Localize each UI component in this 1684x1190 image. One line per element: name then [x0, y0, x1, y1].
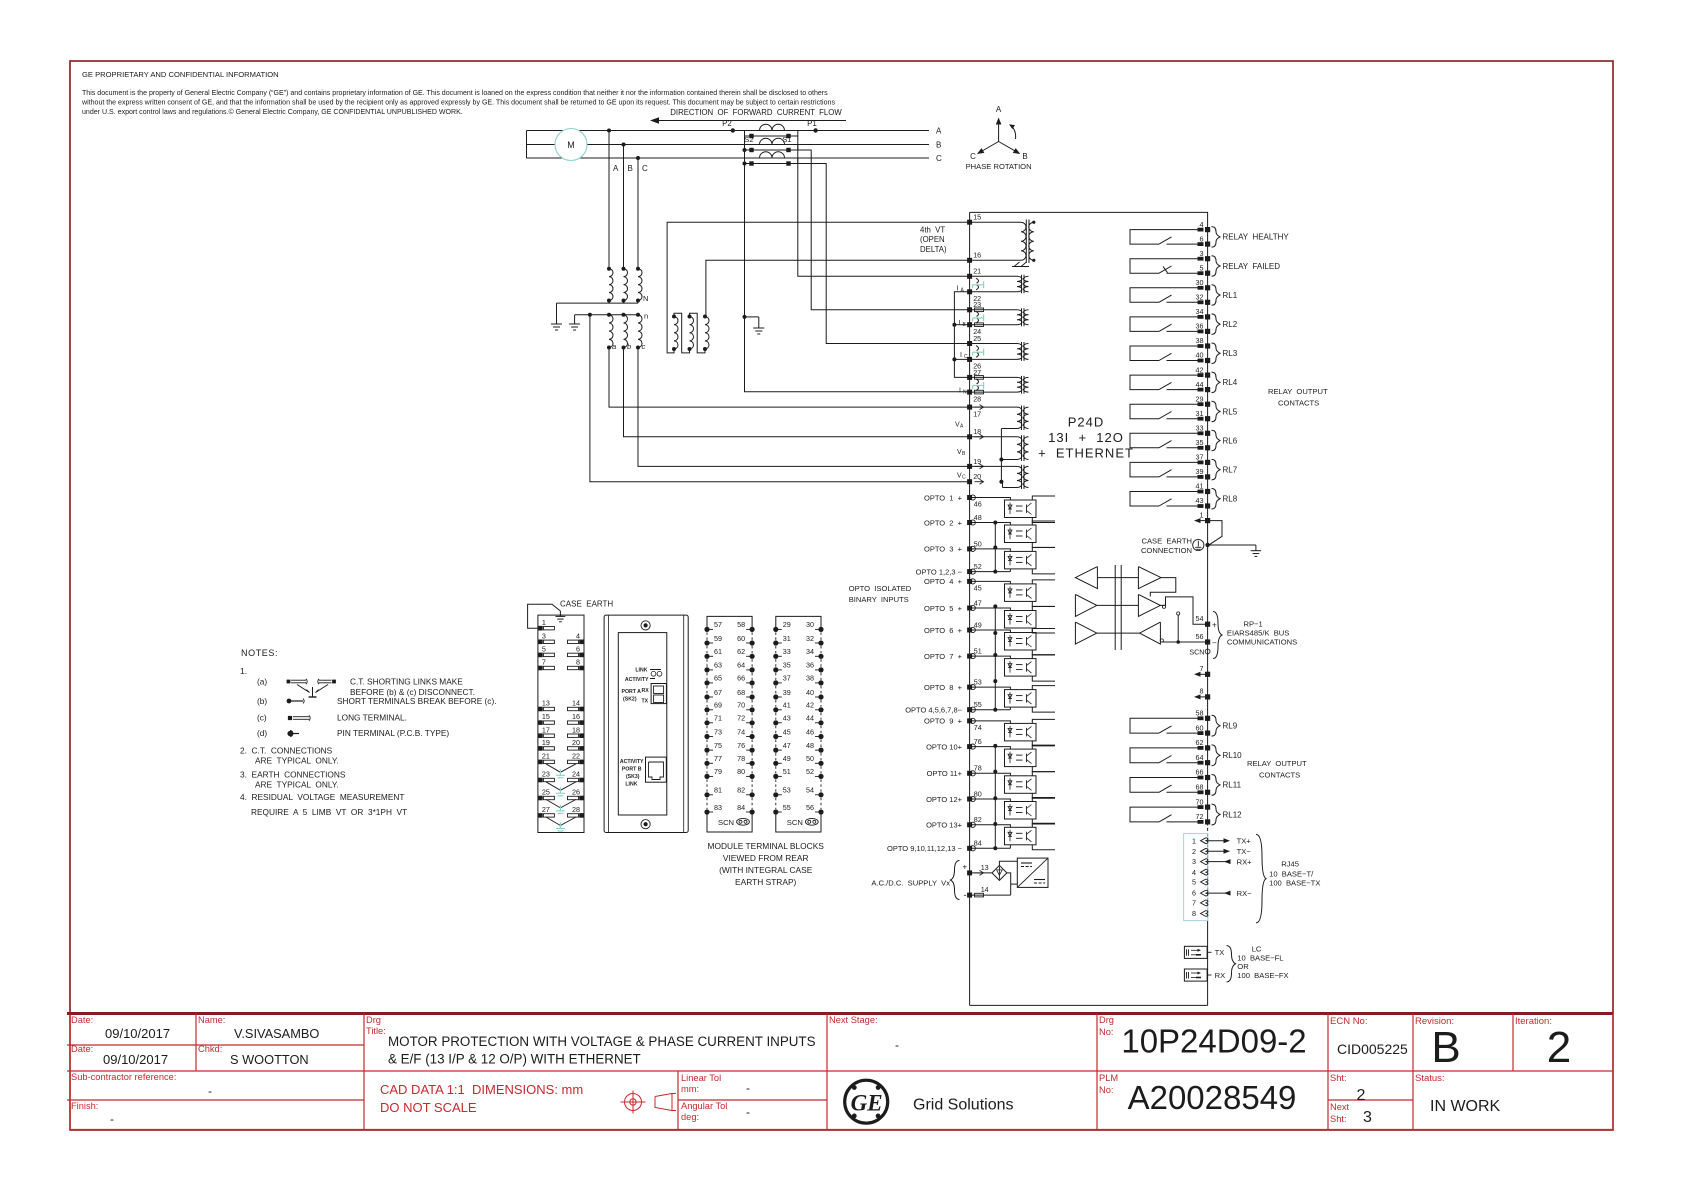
VT primary winding phase C: [636, 267, 642, 303]
svg-text:b: b: [627, 342, 631, 351]
node P1: [807, 119, 818, 133]
svg-text:6: 6: [1192, 889, 1196, 898]
terminal 52 opto common: [916, 562, 982, 576]
svg-text:39: 39: [783, 688, 791, 697]
svg-text:25: 25: [542, 788, 550, 797]
wire opto 3 return: [1009, 569, 1011, 572]
svg-text:36: 36: [1196, 322, 1204, 331]
svg-text:COMMUNICATIONS: COMMUNICATIONS: [1227, 638, 1297, 647]
svg-text:C.T. SHORTING LINKS MAKE: C.T. SHORTING LINKS MAKE: [350, 677, 463, 687]
terminal glyph 28: [975, 390, 984, 394]
RJ45 RX- arrow: [1208, 889, 1253, 898]
svg-text:24: 24: [572, 770, 580, 779]
svg-text:14: 14: [572, 699, 580, 708]
RS485 buffer row1 left: [1075, 567, 1097, 589]
svg-text:Date:: Date:: [71, 1044, 93, 1054]
svg-text:41: 41: [1196, 482, 1204, 491]
svg-text:A: A: [613, 164, 619, 173]
svg-text:71: 71: [714, 714, 722, 723]
relay contact RL9 terminals 58/60: [1130, 709, 1238, 737]
RJ45 TX- arrow: [1208, 847, 1252, 856]
svg-text:OPTO 12+: OPTO 12+: [926, 795, 963, 804]
svg-text:-: -: [895, 1038, 899, 1052]
svg-text:41: 41: [783, 701, 791, 710]
ground case earth: [1251, 545, 1261, 556]
svg-text:C: C: [642, 164, 648, 173]
svg-text:1: 1: [542, 618, 546, 627]
svg-text:7: 7: [1192, 899, 1196, 908]
fiber optic RX port: [1184, 969, 1225, 981]
svg-text:LC: LC: [1252, 944, 1262, 953]
fiber group brace: [1227, 946, 1236, 982]
relay contact RL11 terminals 66/68: [1130, 768, 1242, 796]
title date cell: [71, 1015, 170, 1041]
wire CT A S1 to terminal 21: [798, 136, 970, 276]
svg-text:RL2: RL2: [1223, 320, 1238, 329]
label VB: [957, 449, 966, 457]
svg-text:RL4: RL4: [1223, 378, 1238, 387]
svg-text:Angular Tol: Angular Tol: [681, 1101, 727, 1111]
svg-text:1.: 1.: [240, 666, 247, 676]
svg-text:19: 19: [542, 738, 550, 747]
note 1: [240, 666, 247, 676]
svg-text:6: 6: [576, 645, 580, 654]
svg-text:(a): (a): [257, 677, 267, 687]
svg-text:-: -: [746, 1081, 750, 1095]
optocoupler U4: [1005, 584, 1037, 602]
wire opto 13 output stubs: [1032, 823, 1055, 850]
svg-text:RP−1: RP−1: [1244, 620, 1263, 629]
svg-text:4: 4: [1192, 868, 1196, 877]
note 1a symbol: [287, 679, 336, 697]
wire opto 13 return: [1009, 845, 1011, 849]
svg-text:(OPEN: (OPEN: [920, 235, 945, 244]
svg-text:66: 66: [1196, 768, 1204, 777]
svg-text:55: 55: [783, 803, 791, 812]
wire opto 5 input: [970, 608, 1011, 611]
transformer voltage input VA: [972, 406, 1029, 430]
wire opto 2 input: [970, 523, 1011, 526]
svg-text:8: 8: [1200, 687, 1204, 696]
svg-text:28: 28: [973, 394, 981, 403]
svg-text:No:: No:: [1099, 1085, 1113, 1095]
relay contact RL7 terminals 37/39: [1130, 453, 1238, 480]
case earth block outline: [538, 615, 584, 832]
svg-text:14: 14: [981, 885, 989, 894]
svg-text:B: B: [1431, 1023, 1460, 1072]
svg-text:A.C./D.C. SUPPLY Vx: A.C./D.C. SUPPLY Vx: [871, 878, 950, 887]
svg-text:48: 48: [974, 513, 982, 522]
svg-text:(b): (b): [257, 696, 267, 706]
phase drop labels: [613, 164, 648, 173]
open delta link 1: [674, 313, 690, 353]
wire opto 10 input: [970, 747, 1011, 750]
terminal 76 opto input 10: [926, 737, 982, 751]
wire b to terminal 18: [624, 348, 970, 437]
svg-text:OPTO 3 +: OPTO 3 +: [924, 545, 963, 554]
optocoupler U8: [1005, 690, 1037, 708]
terminal 51 opto input 7: [924, 647, 982, 661]
svg-text:80: 80: [737, 767, 745, 776]
wire VT neutral N: [557, 294, 649, 318]
case earth block terminal 27: [538, 805, 554, 818]
svg-text:OPTO 8 +: OPTO 8 +: [924, 683, 963, 692]
svg-text:09/10/2017: 09/10/2017: [105, 1026, 170, 1041]
ground VT secondary neutral: [569, 318, 580, 330]
svg-text:78: 78: [974, 764, 982, 773]
svg-text:VIEWED FROM REAR: VIEWED FROM REAR: [723, 853, 809, 863]
projection symbol: [621, 1091, 677, 1114]
svg-text:LINK: LINK: [635, 668, 647, 674]
svg-text:10P24D09-2: 10P24D09-2: [1121, 1023, 1306, 1060]
svg-text:RX−: RX−: [1237, 889, 1253, 898]
svg-text:52: 52: [974, 562, 982, 571]
svg-text:C: C: [962, 475, 966, 481]
label RJ45: [1269, 860, 1320, 888]
svg-text:80: 80: [974, 789, 982, 798]
wire opto 11 output stubs: [1032, 772, 1055, 799]
svg-text:63: 63: [714, 661, 722, 670]
relay contact RELAY FAILED terminals 3/5: [1130, 249, 1280, 276]
svg-text:GE PROPRIETARY AND CONFIDENTIA: GE PROPRIETARY AND CONFIDENTIAL INFORMAT…: [82, 70, 279, 79]
svg-text:48: 48: [806, 741, 814, 750]
direction of forward current flow label: [670, 108, 842, 117]
svg-text:70: 70: [737, 701, 745, 710]
svg-text:35: 35: [1196, 438, 1204, 447]
terminal glyph 18: [975, 434, 984, 439]
svg-text:44: 44: [1196, 380, 1204, 389]
optocoupler U5: [1005, 611, 1037, 629]
svg-text:28: 28: [572, 805, 580, 814]
case earth block terminal 19: [538, 738, 554, 751]
svg-text:ACTIVITY: ACTIVITY: [625, 677, 649, 683]
RJ45 pin 8: [1192, 909, 1208, 918]
svg-text:TX+: TX+: [1237, 836, 1252, 845]
svg-text:27: 27: [542, 805, 550, 814]
title finish cell: [71, 1101, 114, 1126]
RS485 buffer row2 left: [1075, 594, 1096, 616]
terminal 25 relay input: [967, 334, 981, 346]
svg-text:47: 47: [974, 598, 982, 607]
note 1d text: [257, 728, 449, 738]
case earth block terminal 25: [538, 788, 554, 801]
svg-text:16: 16: [973, 251, 981, 260]
wire opto common 52: [970, 571, 1011, 573]
svg-text:Next Stage:: Next Stage:: [829, 1015, 878, 1025]
open delta coil 1: [672, 315, 678, 352]
svg-text:RL10: RL10: [1223, 751, 1243, 760]
transformer current input IA: [972, 275, 1029, 294]
transformer 4th VT input: [970, 220, 1036, 264]
svg-text:47: 47: [783, 741, 791, 750]
optocoupler U6: [1005, 633, 1037, 651]
svg-text:(SK3): (SK3): [626, 774, 640, 780]
open delta coil 2: [688, 315, 694, 352]
svg-text:57: 57: [714, 620, 722, 629]
terminal 80 opto input 12: [926, 789, 982, 803]
svg-text:TX: TX: [642, 699, 649, 705]
svg-text:Title:: Title:: [366, 1026, 386, 1036]
svg-text:33: 33: [1196, 424, 1204, 433]
VT primary winding phase B: [622, 267, 628, 303]
svg-text:I: I: [959, 388, 961, 395]
svg-text:40: 40: [806, 688, 814, 697]
wire opto 12 output stubs: [1032, 798, 1055, 825]
wire motor loop left end: [526, 131, 528, 159]
svg-text:66: 66: [737, 674, 745, 683]
svg-text:10 BASE−T/: 10 BASE−T/: [1269, 869, 1314, 878]
svg-text:REQUIRE A 5 LIMB VT OR 3: REQUIRE A 5 LIMB VT OR 3*1PH VT: [251, 807, 407, 817]
note 1c symbol: [288, 715, 310, 720]
terminal 1 case earth: [1194, 511, 1210, 524]
wire opto 8 return: [1009, 707, 1011, 710]
GE logo: [845, 1080, 888, 1123]
svg-text:23: 23: [542, 770, 550, 779]
svg-text:51: 51: [974, 647, 982, 656]
svg-text:77: 77: [714, 754, 722, 763]
RJ45 pin 6: [1192, 889, 1208, 898]
svg-text:A: A: [961, 288, 965, 294]
svg-text:15: 15: [973, 213, 981, 222]
svg-text:55: 55: [974, 700, 982, 709]
svg-text:Finish:: Finish:: [71, 1101, 98, 1111]
svg-text:33: 33: [783, 647, 791, 656]
svg-text:OPTO ISOLATED: OPTO ISOLATED: [849, 584, 912, 593]
svg-text:RL9: RL9: [1223, 722, 1238, 731]
svg-text:1: 1: [1192, 836, 1196, 845]
ground VT neutral: [551, 318, 562, 330]
svg-text:51: 51: [783, 767, 791, 776]
svg-text:ECN No:: ECN No:: [1330, 1016, 1367, 1027]
wire CT B S1 to terminal 23: [798, 150, 970, 310]
case earth block terminal 23: [538, 770, 554, 783]
wire opto 12 input: [970, 799, 1011, 802]
wire opto 10 output stubs: [1032, 745, 1055, 772]
terminal 28 relay input: [967, 390, 981, 404]
svg-text:SCN: SCN: [718, 818, 734, 827]
wire opto 6 input: [970, 630, 1011, 633]
svg-text:EARTH STRAP): EARTH STRAP): [735, 877, 796, 887]
wire opto 7 output stubs: [1032, 655, 1055, 682]
svg-text:60: 60: [1196, 723, 1204, 732]
svg-text:PHASE ROTATION: PHASE ROTATION: [966, 162, 1032, 171]
svg-text:31: 31: [783, 634, 791, 643]
node n junction: [588, 313, 592, 317]
svg-text:(SK2): (SK2): [623, 697, 637, 703]
svg-text:29: 29: [783, 620, 791, 629]
wire CT C S1 to terminal 25: [798, 164, 970, 344]
transformer current input IB: [972, 308, 1029, 326]
svg-text:Date:: Date:: [71, 1015, 93, 1025]
svg-text:n: n: [644, 312, 648, 321]
case earth block terminal 15: [538, 712, 554, 725]
phase rotation curved arrow: [1009, 124, 1016, 139]
transformer current input IC: [972, 342, 1029, 361]
VT secondary winding phase c: [636, 313, 642, 350]
svg-text:3: 3: [1363, 1109, 1372, 1126]
relay contact RL2 terminals 34/36: [1130, 307, 1238, 334]
shorting link 25-26: [973, 346, 984, 358]
svg-text:ARE TYPICAL ONLY.: ARE TYPICAL ONLY.: [255, 756, 339, 766]
svg-text:62: 62: [737, 647, 745, 656]
wire opto 1 input: [970, 498, 1011, 501]
wire case earth to ground: [1208, 544, 1256, 546]
terminal glyph 17: [975, 405, 984, 410]
svg-text:B: B: [628, 164, 633, 173]
wire a to terminal 17: [609, 348, 970, 408]
terminal 82 opto input 13: [926, 815, 982, 829]
terminal 16 relay input: [967, 251, 981, 263]
CT secondary loop phase A: [745, 131, 798, 139]
wire opto 8 input: [970, 687, 1011, 690]
note 2: [240, 746, 339, 766]
optocoupler U9: [1005, 723, 1037, 741]
terminal 27 relay input: [967, 368, 981, 380]
svg-text:79: 79: [714, 767, 722, 776]
wire VT drop C: [637, 158, 639, 269]
svg-text:RL8: RL8: [1223, 495, 1238, 504]
wire opto 4 output stubs: [1032, 580, 1055, 607]
svg-text:15: 15: [542, 712, 550, 721]
svg-text:31: 31: [1196, 409, 1204, 418]
RJ45 group brace: [1256, 834, 1266, 923]
svg-text:54: 54: [1196, 614, 1204, 623]
svg-text:OPTO 13+: OPTO 13+: [926, 821, 963, 830]
svg-text:81: 81: [714, 786, 722, 795]
node CT common C: [743, 162, 747, 166]
svg-text:TX−: TX−: [1237, 847, 1252, 856]
svg-text:-: -: [964, 890, 967, 900]
transformer voltage input VB: [972, 435, 1029, 461]
svg-text:3: 3: [1192, 857, 1196, 866]
svg-text:RX: RX: [642, 688, 650, 694]
wire opto 3 input: [970, 549, 1011, 552]
svg-text:Next: Next: [1330, 1102, 1350, 1112]
svg-text:Linear Tol: Linear Tol: [681, 1073, 721, 1083]
svg-text:TX: TX: [1215, 948, 1225, 957]
RS485 row2 signal wire: [1097, 604, 1139, 606]
terminal 14 supply negative: [967, 885, 989, 898]
svg-text:ACTIVITY: ACTIVITY: [620, 759, 644, 765]
svg-text:59: 59: [714, 634, 722, 643]
RJ45 pin 3: [1192, 857, 1208, 866]
title next stage cell: [829, 1015, 899, 1052]
case earth block terminal 28: [568, 805, 584, 818]
title subcontractor cell: [71, 1072, 212, 1098]
svg-text:PORT B: PORT B: [622, 767, 642, 773]
svg-text:A: A: [996, 105, 1002, 114]
svg-text:75: 75: [714, 741, 722, 750]
svg-text:82: 82: [737, 786, 745, 795]
VT secondary winding phase b: [622, 313, 628, 350]
svg-text:7: 7: [1200, 664, 1204, 673]
wire opto 9 output stubs: [1032, 719, 1055, 746]
svg-text:2: 2: [1357, 1087, 1366, 1104]
svg-text:CID005225: CID005225: [1337, 1041, 1408, 1057]
node CT common B: [743, 148, 747, 152]
RS485 buffer row3 left: [1075, 622, 1096, 644]
case earth block terminal 8: [568, 658, 584, 671]
svg-text:S2: S2: [744, 135, 753, 144]
module rear outline: [604, 615, 688, 832]
svg-text:IN WORK: IN WORK: [1430, 1098, 1501, 1115]
VT secondary labels a b c: [612, 342, 646, 351]
terminal 84 opto common: [887, 839, 982, 853]
terminal 23 relay input: [967, 300, 981, 312]
svg-text:N: N: [963, 390, 967, 396]
svg-text:without the express written co: without the express written consent of G…: [81, 100, 835, 107]
svg-text:DIRECTION OF FORWARD CURREN: DIRECTION OF FORWARD CURRENT FLOW: [670, 108, 842, 117]
module screw top: [641, 621, 650, 630]
CT primary winding phase C: [760, 152, 785, 158]
svg-text:26: 26: [572, 788, 580, 797]
module port B labels: [620, 759, 644, 788]
node bus C tap: [636, 156, 640, 160]
svg-text:43: 43: [783, 714, 791, 723]
svg-text:100 BASE−FX: 100 BASE−FX: [1237, 971, 1288, 980]
svg-text:32: 32: [806, 634, 814, 643]
wire n to terminal 20: [590, 315, 970, 482]
terminal 55 opto common: [905, 700, 982, 714]
svg-text:56: 56: [1196, 632, 1204, 641]
svg-text:CONTACTS: CONTACTS: [1259, 771, 1300, 780]
title angular tol cell: [681, 1101, 750, 1122]
svg-text:I: I: [960, 352, 962, 359]
phase rotation caption: [966, 162, 1032, 171]
terminal block rear 29-56: [773, 616, 823, 832]
svg-text:OPTO 9,10,11,12,13 −: OPTO 9,10,11,12,13 −: [887, 844, 963, 853]
svg-text:LINK: LINK: [625, 782, 637, 788]
svg-text:mm:: mm:: [681, 1084, 699, 1094]
relay contact RL12 terminals 70/72: [1130, 797, 1242, 825]
terminal 18 relay input: [967, 427, 981, 439]
label relay output contacts lower: [1247, 759, 1307, 780]
svg-text:OPTO 4,5,6,7,8−: OPTO 4,5,6,7,8−: [905, 706, 962, 715]
wire bus phase C: [527, 157, 930, 159]
svg-text:RL6: RL6: [1223, 436, 1238, 445]
svg-text:OPTO 6 +: OPTO 6 +: [924, 626, 963, 635]
svg-text:I: I: [959, 320, 961, 327]
svg-text:SCN: SCN: [1189, 648, 1204, 657]
RS485 group brace: [1213, 612, 1222, 659]
node bus A tap: [607, 129, 611, 133]
svg-text:−: −: [1212, 639, 1217, 648]
svg-text:52: 52: [806, 767, 814, 776]
svg-text:50: 50: [974, 539, 982, 548]
screen earth 4th VT: [1012, 262, 1029, 267]
label grid solutions: [913, 1097, 1014, 1114]
label VC: [957, 473, 966, 481]
svg-text:30: 30: [806, 620, 814, 629]
label case earth connection: [1141, 537, 1192, 555]
svg-text:a: a: [612, 342, 616, 351]
svg-text:2: 2: [1192, 847, 1196, 856]
label AC DC supply: [871, 861, 967, 901]
svg-text:RL1: RL1: [1223, 291, 1238, 300]
module LED symbol: [650, 670, 662, 679]
module rear inner recess: [618, 633, 667, 815]
svg-text:DELTA): DELTA): [920, 245, 947, 254]
svg-text:Grid Solutions: Grid Solutions: [913, 1097, 1014, 1114]
terminal SCN: [1189, 648, 1210, 657]
svg-text:& E/F (13 I/P & 12 O/P) WITH E: & E/F (13 I/P & 12 O/P) WITH ETHERNET: [388, 1052, 641, 1067]
svg-text:34: 34: [806, 647, 814, 656]
title chkd cell: [198, 1044, 309, 1067]
wire opto 1 output stubs: [1032, 496, 1055, 523]
svg-text:84: 84: [737, 803, 745, 812]
svg-text:N: N: [643, 294, 648, 303]
label IC: [960, 352, 968, 360]
